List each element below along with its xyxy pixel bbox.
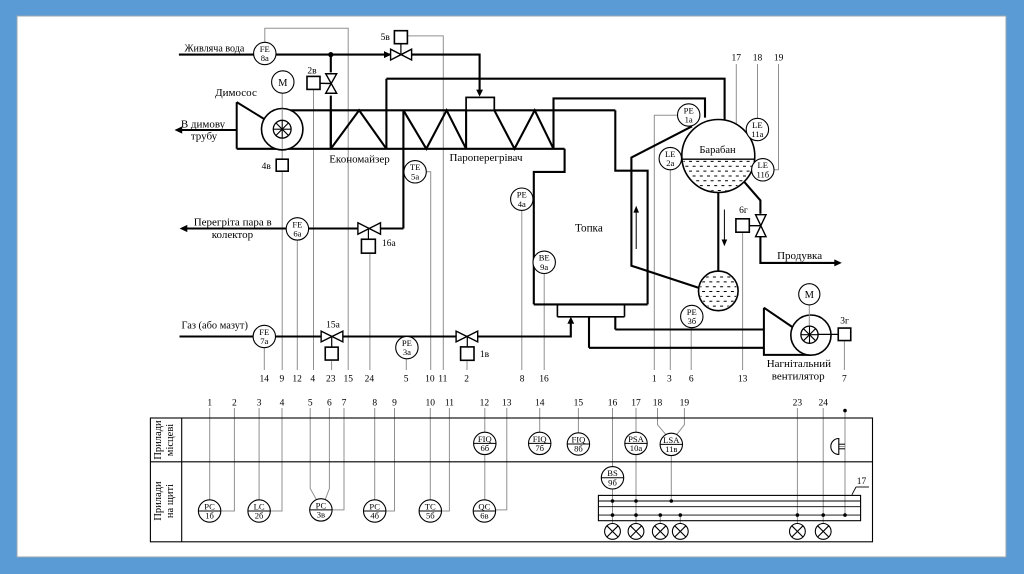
svg-text:Топка: Топка xyxy=(575,222,603,234)
svg-text:6г: 6г xyxy=(739,206,748,216)
svg-text:5а: 5а xyxy=(411,171,419,181)
svg-text:3а: 3а xyxy=(403,347,411,357)
svg-text:2: 2 xyxy=(464,375,469,385)
svg-text:трубу: трубу xyxy=(191,131,218,143)
svg-text:1а: 1а xyxy=(685,115,693,125)
svg-text:17: 17 xyxy=(631,399,641,409)
svg-text:2б: 2б xyxy=(255,511,264,521)
svg-text:9б: 9б xyxy=(608,477,617,487)
svg-text:вентилятор: вентилятор xyxy=(772,371,825,383)
svg-text:9: 9 xyxy=(392,399,397,409)
svg-text:1б: 1б xyxy=(205,511,214,521)
svg-text:16: 16 xyxy=(608,399,618,409)
svg-text:Нагнітальний: Нагнітальний xyxy=(767,358,831,370)
svg-text:17: 17 xyxy=(857,477,867,487)
svg-text:19: 19 xyxy=(680,399,690,409)
svg-text:13: 13 xyxy=(502,399,512,409)
svg-text:М: М xyxy=(805,290,815,301)
svg-text:24: 24 xyxy=(365,375,375,385)
svg-text:Барабан: Барабан xyxy=(699,145,736,156)
svg-text:Продувка: Продувка xyxy=(777,250,822,262)
svg-text:24: 24 xyxy=(818,399,828,409)
svg-text:7б: 7б xyxy=(535,443,544,453)
svg-text:10: 10 xyxy=(425,375,435,385)
svg-text:17: 17 xyxy=(732,54,742,64)
svg-text:1в: 1в xyxy=(480,350,490,360)
svg-text:Прилади: Прилади xyxy=(153,420,164,460)
svg-text:5: 5 xyxy=(404,375,409,385)
svg-text:4: 4 xyxy=(310,375,315,385)
svg-text:6: 6 xyxy=(689,375,694,385)
svg-text:12: 12 xyxy=(292,375,302,385)
svg-text:13: 13 xyxy=(738,375,748,385)
svg-text:9а: 9а xyxy=(540,262,548,272)
svg-text:2в: 2в xyxy=(307,67,317,77)
svg-text:14: 14 xyxy=(260,375,270,385)
svg-text:10а: 10а xyxy=(630,443,643,453)
svg-text:15а: 15а xyxy=(326,320,341,330)
svg-text:15: 15 xyxy=(344,375,354,385)
svg-text:Економайзер: Економайзер xyxy=(329,154,390,166)
svg-text:1: 1 xyxy=(207,399,212,409)
svg-text:10: 10 xyxy=(426,399,436,409)
svg-text:на щиті: на щиті xyxy=(165,484,176,518)
svg-text:4: 4 xyxy=(280,399,285,409)
svg-text:5б: 5б xyxy=(426,511,435,521)
svg-text:Живляча вода: Живляча вода xyxy=(185,44,245,55)
svg-text:4в: 4в xyxy=(262,162,272,172)
svg-text:Газ (або мазут): Газ (або мазут) xyxy=(182,320,248,331)
svg-text:5: 5 xyxy=(308,399,313,409)
svg-text:8: 8 xyxy=(372,399,377,409)
svg-text:Перегріта пара в: Перегріта пара в xyxy=(194,217,272,229)
svg-text:М: М xyxy=(278,78,288,89)
svg-text:8: 8 xyxy=(520,375,525,385)
svg-text:11в: 11в xyxy=(665,444,677,454)
svg-text:9: 9 xyxy=(280,375,285,385)
svg-text:7: 7 xyxy=(842,375,847,385)
svg-text:3в: 3в xyxy=(317,510,325,520)
svg-text:11: 11 xyxy=(438,375,447,385)
svg-text:3: 3 xyxy=(667,375,672,385)
svg-text:18: 18 xyxy=(653,399,663,409)
svg-text:6: 6 xyxy=(327,399,332,409)
svg-text:11а: 11а xyxy=(751,129,763,139)
svg-text:3: 3 xyxy=(257,399,262,409)
svg-text:7а: 7а xyxy=(260,336,268,346)
svg-text:2: 2 xyxy=(232,399,237,409)
svg-text:16: 16 xyxy=(539,375,549,385)
svg-text:місцеві: місцеві xyxy=(165,424,176,456)
svg-text:23: 23 xyxy=(326,375,336,385)
svg-text:4б: 4б xyxy=(370,511,379,521)
svg-text:15: 15 xyxy=(574,399,584,409)
svg-text:19: 19 xyxy=(774,54,784,64)
svg-text:6в: 6в xyxy=(480,511,488,521)
svg-text:3г: 3г xyxy=(840,317,849,327)
svg-text:11: 11 xyxy=(445,399,454,409)
svg-text:7: 7 xyxy=(342,399,347,409)
svg-text:Пароперегрівач: Пароперегрівач xyxy=(449,152,523,164)
svg-text:В димову: В димову xyxy=(181,118,226,130)
svg-text:колектор: колектор xyxy=(212,229,254,241)
svg-text:16а: 16а xyxy=(382,239,397,249)
svg-text:8а: 8а xyxy=(261,53,269,63)
svg-text:5в: 5в xyxy=(381,33,391,43)
svg-text:23: 23 xyxy=(793,399,803,409)
svg-text:6а: 6а xyxy=(293,229,301,239)
svg-text:3б: 3б xyxy=(687,316,696,326)
svg-text:1: 1 xyxy=(652,375,657,385)
svg-text:14: 14 xyxy=(535,399,545,409)
svg-text:8б: 8б xyxy=(574,444,583,454)
svg-text:2а: 2а xyxy=(666,158,674,168)
svg-text:18: 18 xyxy=(753,54,763,64)
svg-text:4а: 4а xyxy=(518,199,526,209)
svg-text:Прилади: Прилади xyxy=(153,481,164,521)
svg-text:Димосос: Димосос xyxy=(215,87,257,99)
svg-text:6б: 6б xyxy=(480,443,489,453)
svg-text:11б: 11б xyxy=(756,169,769,179)
svg-text:12: 12 xyxy=(480,399,490,409)
